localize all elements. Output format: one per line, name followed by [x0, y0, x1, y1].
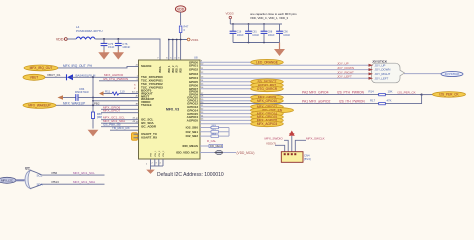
svg-text:I2C_ADDR: I2C_ADDR [141, 125, 157, 129]
wire cap bank top [230, 23, 282, 25]
wire GPIO12 row [200, 106, 251, 108]
capacitor C84 [63, 87, 93, 101]
wire PA2 MFX_GPIO4 row [200, 94, 422, 96]
wire VBUT to D1 [45, 76, 66, 78]
junction node [168, 39, 170, 41]
svg-text:IO2_SB2: IO2_SB2 [186, 134, 199, 138]
svg-text:VSS_1: VSS_1 [155, 150, 157, 157]
svg-text:OTG_OVRCR: OTG_OVRCR [257, 87, 278, 91]
IC left pin labels [141, 64, 163, 140]
capacitor C18 [261, 24, 276, 43]
ground (C76) [113, 50, 124, 60]
wire VDD_2 pin [172, 40, 174, 61]
capacitor C75 [101, 39, 115, 50]
solder bridge SB2 [211, 135, 219, 138]
wire GPIO9 row [200, 96, 251, 98]
svg-text:MFX_IRQ_OUT_PH: MFX_IRQ_OUT_PH [63, 64, 93, 68]
wire IO2_SB1 row [200, 131, 229, 133]
junction node [92, 100, 94, 102]
svg-text:VDD1: VDD1 [191, 38, 199, 42]
wire IDD_MEAS row [200, 145, 209, 147]
svg-text:VDD_1: VDD_1 [169, 65, 171, 73]
svg-text:TB_MFX_RX: TB_MFX_RX [112, 126, 130, 130]
net label row 120.4 [251, 118, 284, 124]
solder bridge SB1 [211, 131, 219, 134]
svg-text:VDDA: VDDA [159, 66, 162, 73]
wire I2C_SCL row [101, 119, 139, 121]
wire MFX_GPIO6 row [101, 108, 139, 110]
junction node [92, 76, 94, 78]
svg-text:100nF: 100nF [283, 34, 290, 37]
inductor L4 [76, 25, 103, 39]
net label row 97.4 [251, 95, 284, 101]
svg-text:JOY_LEFT: JOY_LEFT [375, 76, 389, 80]
svg-text:VDD, VDD_C, VDD_1, VDD_3: VDD, VDD_C, VDD_1, VDD_3 [250, 16, 289, 20]
wire VDD pin [180, 40, 182, 61]
svg-text:SCL: SCL [37, 174, 43, 178]
IC top pin numbers [157, 58, 180, 60]
jumper SB (VDD_MCU) [215, 150, 223, 154]
junction node [180, 39, 182, 41]
wire GPIO5 row [200, 81, 251, 83]
svg-text:MFX_I2C1_SCL: MFX_I2C1_SCL [73, 171, 95, 175]
svg-text:47K: 47K [387, 98, 392, 102]
wire SCL [42, 174, 105, 176]
wire VDD pin bus [169, 39, 187, 41]
wire VDD_3 pin [176, 40, 178, 61]
wire JOY_UP [200, 64, 369, 66]
svg-text:MFX_GPIO7: MFX_GPIO7 [103, 109, 121, 113]
svg-text:Default I2C Address: 1000010: Default I2C Address: 1000010 [157, 172, 224, 178]
wire JOY_RIGHT [200, 73, 369, 75]
wire row 100.8 [93, 100, 139, 102]
port arrow JOY_RIGHT [369, 72, 374, 75]
svg-text:VDD_3: VDD_3 [177, 65, 179, 73]
bus wire [16, 179, 25, 181]
svg-text:PA1 MFX_aGPIO2: PA1 MFX_aGPIO2 [302, 100, 331, 104]
solder bridge SB0 [211, 126, 219, 129]
wire GPIO10 row [200, 100, 251, 102]
svg-text:I2C: I2C [25, 166, 31, 170]
connector CN4 [281, 152, 310, 163]
svg-text:MFX_WAKEUP: MFX_WAKEUP [63, 101, 85, 105]
svg-text:IDD_VDD_MCU: IDD_VDD_MCU [176, 151, 198, 155]
IC right pin labels [176, 60, 198, 154]
joystick sheet block [372, 63, 405, 83]
ground (IC) [146, 170, 155, 174]
junction node [176, 39, 178, 41]
svg-text:100nF: 100nF [268, 34, 275, 37]
wire VDD to CN4 [275, 145, 285, 151]
wire I2C_SDA row [101, 122, 139, 124]
wire joystick bus [404, 73, 441, 75]
svg-text:LED_ORANGE: LED_ORANGE [256, 61, 278, 65]
svg-text:[0R]: [0R] [97, 115, 102, 119]
wire IO2_SB2 row [200, 135, 229, 137]
net flag arrow (NRST) [99, 91, 104, 96]
power flag VDD1 [187, 38, 199, 42]
svg-text:SHAKE: SHAKE [141, 64, 152, 68]
vertical wire x93 [92, 77, 94, 128]
port arrow JOY_LEFT [369, 77, 374, 80]
svg-text:IDD_MEAS: IDD_MEAS [210, 145, 223, 148]
net label row 106.8 [251, 104, 284, 110]
wire SDA [42, 183, 105, 185]
capacitor C16 [230, 24, 245, 43]
wire IO2_SB0 row [200, 127, 229, 129]
port arrow JOY_UP [369, 64, 374, 67]
svg-text:PB13: PB13 [52, 180, 60, 184]
svg-text:(VDD_MCU): (VDD_MCU) [237, 151, 255, 155]
svg-text:MFX_V3: MFX_V3 [166, 108, 179, 112]
resistor R87 [92, 112, 103, 119]
svg-text:PA2 MFX_GPIO4: PA2 MFX_GPIO4 [302, 90, 329, 94]
net flag arrow (C84) [58, 95, 64, 100]
wire R47 to VDD bus [180, 33, 182, 40]
wire AGPIO3 row [200, 123, 251, 125]
port arrow JOY_DOWN [369, 68, 374, 71]
svg-text:PCM040MZ-4R7TU: PCM040MZ-4R7TU [76, 29, 103, 33]
svg-text:MFX_IRQ_OUT: MFX_IRQ_OUT [30, 66, 53, 70]
capacitor C17 [245, 24, 260, 43]
svg-text:100nF: 100nF [122, 45, 130, 49]
wire SWDIO [284, 140, 288, 151]
wire MFX_IRQ_OUT to SHAKE [58, 66, 139, 68]
wire MFX_WAKEUP to IC [56, 104, 139, 106]
svg-text:VDD3: VDD3 [226, 12, 234, 16]
wire VDD_1 pin [168, 40, 170, 61]
wire GPIO14 row [200, 113, 251, 115]
svg-text:IDD_MEAS: IDD_MEAS [182, 144, 198, 148]
svg-text:15nF: 15nF [108, 45, 115, 49]
svg-text:[5V4]: [5V4] [304, 157, 311, 161]
wire MFX_GPIO7 row [101, 112, 139, 114]
IC bottom pin labels (rotated) [151, 150, 166, 157]
svg-text:10K: 10K [388, 90, 393, 94]
IC top pin labels (rotated) [159, 65, 182, 73]
junction node [92, 104, 94, 106]
wire JOY_DOWN [200, 69, 369, 71]
note text [250, 12, 297, 20]
wire GPIO6 row [200, 84, 251, 86]
svg-text:R11: R11 [105, 90, 110, 94]
svg-text:AGPIO5: AGPIO5 [187, 119, 199, 123]
junction node [421, 94, 423, 96]
svg-text:110: 110 [120, 90, 125, 94]
bus ripper [25, 170, 42, 188]
svg-text:MFX_I2C1_SDA: MFX_I2C1_SDA [73, 180, 95, 184]
ground (x93) [88, 130, 99, 137]
svg-text:VDD: VDD [181, 68, 183, 73]
svg-text:VDD: VDD [56, 38, 64, 42]
power symbol VDD (top) [175, 6, 185, 12]
resistor R47 [179, 25, 189, 33]
wire row 130.2 [110, 129, 139, 131]
svg-text:MFX_WAKEUP: MFX_WAKEUP [28, 104, 50, 108]
net label MFX_WAKEUP [23, 102, 56, 108]
net label MFX_GPIO7 [251, 86, 284, 92]
ground (C75) [98, 50, 109, 60]
bus label MFX_I2C [0, 177, 16, 183]
wire GPIO13 row [200, 109, 251, 111]
wire SB vertical [228, 128, 230, 137]
svg-text:R_CAL: R_CAL [207, 139, 216, 143]
svg-text:MFX_SWDIO: MFX_SWDIO [265, 137, 284, 141]
svg-text:VDD(?): VDD(?) [266, 142, 276, 146]
net label I2S_PER_CK [433, 92, 466, 98]
svg-text:VSS_3: VSS_3 [163, 150, 165, 157]
net label row 110.2 (wide) [251, 107, 294, 113]
wire PA1 MFX_aGPIO2 row [200, 103, 379, 105]
svg-text:JOY_LEFT: JOY_LEFT [337, 75, 352, 79]
svg-text:MFX_I2C: MFX_I2C [1, 179, 13, 183]
svg-text:VSS_2: VSS_2 [159, 150, 161, 157]
svg-text:I2S_FTH_PWRON: I2S_FTH_PWRON [103, 77, 128, 81]
svg-text:SB14: SB14 [212, 125, 216, 127]
wire GPIO0 row [200, 61, 251, 63]
net label MFX_GPIO6 [251, 82, 284, 88]
junction node [117, 38, 119, 40]
wire VDD to L4 [67, 38, 76, 40]
svg-text:R47: R47 [184, 25, 189, 29]
svg-text:TSCILE: TSCILE [141, 103, 152, 107]
svg-text:I2S_PER_CK: I2S_PER_CK [439, 93, 459, 97]
wire AGPIO row [200, 119, 251, 121]
svg-text:R14: R14 [369, 90, 375, 94]
net label row 113.6 [251, 111, 284, 117]
wire SWCLK [295, 140, 306, 151]
svg-text:SDA: SDA [37, 183, 43, 187]
net label MFX_GPIO5 [251, 79, 284, 85]
junction node [92, 97, 94, 99]
svg-text:VDD: VDD [177, 7, 185, 11]
IC bottom VSS stubs [146, 159, 163, 170]
ground (cap bank) [274, 43, 285, 57]
svg-text:100nF: 100nF [237, 34, 244, 37]
svg-text:PB6: PB6 [52, 171, 58, 175]
svg-text:MFX_GPIO10: MFX_GPIO10 [257, 99, 277, 103]
svg-text:PB2: PB2 [94, 101, 100, 105]
USART highlight box [132, 133, 139, 140]
svg-text:I2S_ITH_PWRON: I2S_ITH_PWRON [339, 100, 365, 104]
svg-text:SB15: SB15 [212, 129, 216, 131]
wire D1 to TSC_XP [72, 76, 139, 78]
wire GPIO7 row [200, 88, 251, 90]
net label VBUT [23, 74, 45, 80]
wire cap bank bottom [233, 42, 280, 44]
capacitor C19 [276, 24, 291, 43]
wire IDD row [200, 152, 215, 154]
svg-text:MFX_AGPIO3: MFX_AGPIO3 [257, 122, 278, 126]
svg-text:USART_RX: USART_RX [141, 136, 157, 140]
IC left pin numbers [136, 65, 139, 124]
MFX IC U8 [139, 56, 201, 159]
net label row 117 [251, 114, 284, 120]
power arrow (SWD) [289, 131, 295, 152]
pin numbers right side [201, 61, 204, 121]
wire to I2S_PER_CK label [422, 94, 433, 96]
svg-text:100nF: 100nF [252, 34, 259, 37]
svg-text:I2S_PER_CK: I2S_PER_CK [398, 90, 416, 94]
net label JOYSTICK [441, 71, 463, 76]
resistor R17 [370, 98, 392, 104]
svg-text:MFX_SWCLK: MFX_SWCLK [306, 137, 325, 141]
resistor R11 [104, 90, 139, 96]
wire L4 to VDDA [95, 39, 160, 60]
svg-text:R17: R17 [370, 98, 376, 102]
wire JOY_LEFT [200, 77, 369, 79]
capacitor C76 [115, 39, 131, 50]
resistor R14 [369, 90, 393, 96]
wire VDD to R47 [180, 12, 182, 25]
power symbol VDD3 [226, 12, 234, 25]
svg-text:I2S_PTH_PWRON: I2S_PTH_PWRON [337, 90, 365, 94]
diode D1 [67, 73, 96, 80]
svg-text:JOYSTICK: JOYSTICK [445, 72, 460, 76]
svg-text:VSS: VSS [151, 152, 153, 157]
wire R17 to junction [386, 95, 422, 104]
net label row 100.8 [251, 98, 284, 104]
svg-text:VDD_2: VDD_2 [173, 65, 175, 73]
wire C84 row to IC [93, 97, 139, 99]
svg-text:SB16: SB16 [212, 134, 216, 136]
IDD_MEAS box [209, 144, 223, 148]
power symbol VDD (inductor input) [56, 38, 67, 42]
net label row 123.8 [251, 121, 284, 127]
svg-text:U8: U8 [194, 56, 198, 60]
net label LED_ORANGE [251, 59, 284, 65]
junction node [232, 23, 234, 25]
wire jumper to VDD_MCU [223, 152, 236, 154]
svg-text:VBUT: VBUT [30, 76, 39, 80]
svg-text:DNI/470nF: DNI/470nF [75, 90, 89, 94]
wire I2C_ADDR row [101, 126, 139, 128]
svg-text:VBUT_D1: VBUT_D1 [47, 73, 61, 77]
junction node [103, 38, 105, 40]
junction node [172, 39, 174, 41]
wire GPIO15 row [200, 116, 251, 118]
wire TSC_XN row [99, 80, 139, 82]
net label MFX_IRQ_OUT [24, 65, 58, 71]
